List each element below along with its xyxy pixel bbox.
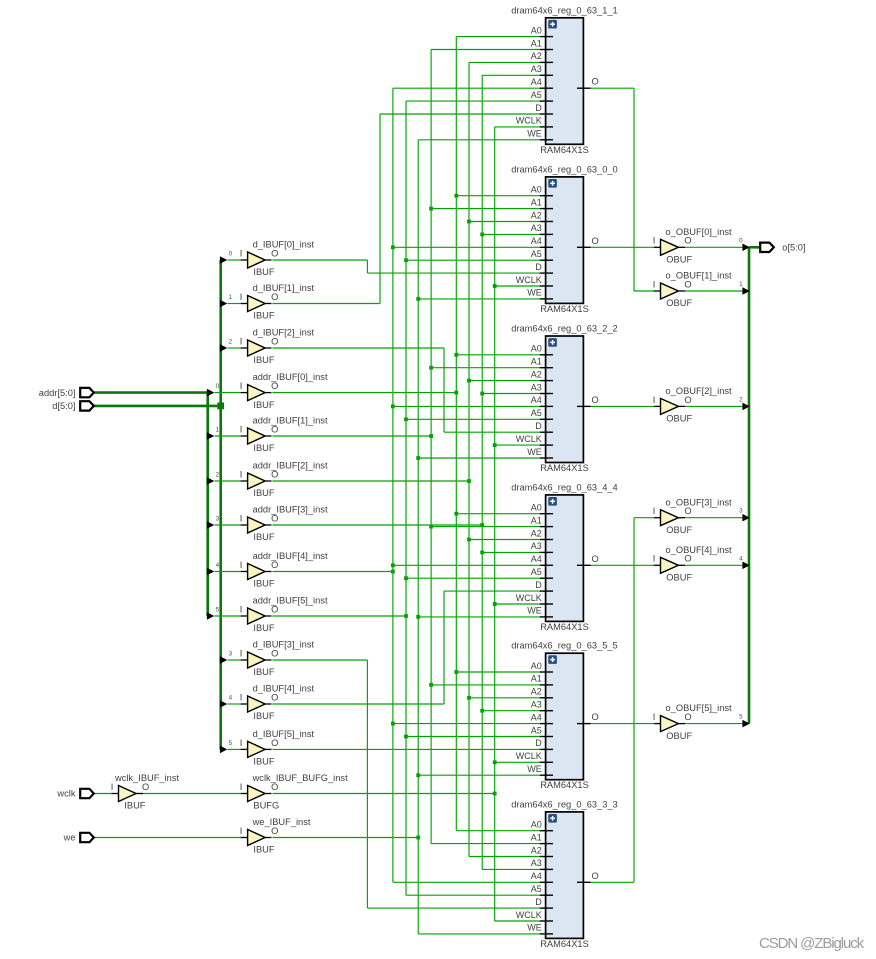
pin WCLK of dram64x6_reg_0_63_4_4: [540, 603, 553, 605]
svg-text:O: O: [271, 604, 278, 614]
pin WCLK of dram64x6_reg_0_63_1_1: [540, 126, 553, 128]
wire net d_IBUF[1] (jog to RAM D pin): [272, 114, 539, 304]
svg-text:RAM64X1S: RAM64X1S: [540, 622, 589, 632]
pin A4 of dram64x6_reg_0_63_4_4: [540, 564, 553, 566]
pin A5 of dram64x6_reg_0_63_3_3: [540, 894, 553, 896]
svg-text:o_OBUF[1]_inst: o_OBUF[1]_inst: [666, 271, 733, 281]
svg-text:O: O: [592, 77, 599, 87]
pin A0 of dram64x6_reg_0_63_4_4: [540, 513, 553, 515]
svg-text:A0: A0: [531, 25, 542, 35]
pin O of dram64x6_reg_0_63_0_0: [577, 246, 591, 248]
svg-text:A3: A3: [531, 541, 542, 551]
svg-text:we_IBUF_inst: we_IBUF_inst: [252, 817, 311, 827]
svg-text:O: O: [684, 236, 691, 246]
svg-text:addr_IBUF[5]_inst: addr_IBUF[5]_inst: [253, 596, 328, 606]
input port we: [63, 833, 94, 843]
svg-text:o_OBUF[3]_inst: o_OBUF[3]_inst: [666, 497, 733, 507]
svg-text:o[5:0]: o[5:0]: [782, 243, 805, 253]
svg-text:A4: A4: [531, 236, 542, 246]
svg-text:WE: WE: [527, 447, 542, 457]
buffer addr_IBUF[2]_inst (IBUF): [240, 461, 328, 499]
svg-text:A4: A4: [531, 712, 542, 722]
pin A4 of dram64x6_reg_0_63_0_0: [540, 246, 553, 248]
svg-text:O: O: [684, 712, 691, 722]
pin A1 of dram64x6_reg_0_63_2_2: [540, 367, 553, 369]
svg-text:d_IBUF[0]_inst: d_IBUF[0]_inst: [253, 240, 315, 250]
svg-text:IBUF: IBUF: [253, 845, 274, 855]
svg-text:I: I: [240, 738, 243, 748]
bus tap arrow addr[3]: [207, 515, 248, 528]
svg-text:5: 5: [739, 714, 743, 721]
svg-text:3: 3: [739, 508, 743, 515]
pin A4 of dram64x6_reg_0_63_2_2: [540, 405, 553, 407]
wire o_OBUF[5] output to o bus, tap arrow and bit index 5: [685, 714, 750, 728]
svg-text:RAM64X1S: RAM64X1S: [540, 463, 589, 473]
svg-text:IBUF: IBUF: [124, 801, 145, 811]
svg-text:A3: A3: [531, 64, 542, 74]
svg-text:5: 5: [229, 740, 233, 747]
bus tap arrow d[4]: [220, 694, 248, 707]
pin A5 of dram64x6_reg_0_63_5_5: [540, 736, 553, 738]
svg-text:O: O: [592, 871, 599, 881]
svg-text:we: we: [63, 833, 76, 843]
svg-text:OBUF: OBUF: [666, 414, 692, 424]
bus tap arrow addr[4]: [207, 562, 248, 575]
buffer wclk_IBUF_inst (IBUF): [111, 773, 180, 811]
svg-text:1: 1: [216, 426, 220, 433]
svg-text:I: I: [240, 469, 243, 479]
pin D of dram64x6_reg_0_63_0_0: [540, 272, 553, 274]
svg-text:d_IBUF[4]_inst: d_IBUF[4]_inst: [253, 684, 315, 694]
svg-text:A4: A4: [531, 395, 542, 405]
svg-text:o_OBUF[0]_inst: o_OBUF[0]_inst: [666, 227, 733, 237]
RAM block dram64x6_reg_0_63_2_2 (RAM64X1S): [511, 324, 617, 474]
svg-text:A0: A0: [531, 820, 542, 830]
junction d bus at port row: [217, 403, 224, 410]
wire net dram O(4_4) to o_OBUF[4] input: [591, 564, 654, 566]
svg-text:OBUF: OBUF: [666, 298, 692, 308]
wire o[5:0] output bus: [749, 247, 761, 723]
svg-text:IBUF: IBUF: [253, 355, 274, 365]
junctions net addr_IBUF[1]: [429, 207, 433, 687]
svg-text:I: I: [240, 826, 243, 836]
svg-text:A3: A3: [531, 223, 542, 233]
svg-text:1: 1: [739, 281, 743, 288]
pin WCLK of dram64x6_reg_0_63_5_5: [540, 761, 553, 763]
svg-text:1: 1: [229, 294, 233, 301]
input port addr[5:0]: [39, 388, 94, 398]
svg-text:4: 4: [739, 555, 743, 562]
buffer addr_IBUF[0]_inst (IBUF): [240, 372, 328, 410]
pin A1 of dram64x6_reg_0_63_4_4: [540, 526, 553, 528]
svg-text:A0: A0: [531, 344, 542, 354]
pin A5 of dram64x6_reg_0_63_4_4: [540, 577, 553, 579]
pin A5 of dram64x6_reg_0_63_2_2: [540, 418, 553, 420]
pin A1 of dram64x6_reg_0_63_5_5: [540, 684, 553, 686]
pin WE of dram64x6_reg_0_63_4_4: [540, 616, 553, 618]
svg-text:d_IBUF[1]_inst: d_IBUF[1]_inst: [253, 283, 315, 293]
pin O of dram64x6_reg_0_63_4_4: [577, 564, 591, 566]
junctions net wclk_IBUF_BUFG: [493, 284, 497, 795]
svg-text:A1: A1: [531, 197, 542, 207]
buffer addr_IBUF[1]_inst (IBUF): [240, 416, 328, 454]
svg-text:D: D: [535, 738, 542, 748]
svg-text:I: I: [653, 506, 656, 516]
RAM block dram64x6_reg_0_63_4_4 (RAM64X1S): [511, 482, 617, 632]
svg-text:O: O: [271, 424, 278, 434]
pin WE of dram64x6_reg_0_63_0_0: [540, 298, 553, 300]
svg-text:IBUF: IBUF: [253, 488, 274, 498]
svg-text:I: I: [240, 604, 243, 614]
svg-text:RAM64X1S: RAM64X1S: [540, 145, 589, 155]
svg-text:O: O: [271, 782, 278, 792]
pin A4 of dram64x6_reg_0_63_5_5: [540, 723, 553, 725]
svg-text:A2: A2: [531, 210, 542, 220]
buffer o_OBUF[1]_inst (OBUF): [653, 271, 732, 309]
svg-text:0: 0: [216, 383, 220, 390]
svg-text:A4: A4: [531, 77, 542, 87]
svg-text:2: 2: [739, 396, 743, 403]
wire addr[5:0] input bus (port to addr trunk, with per-bit taps): [93, 391, 207, 616]
svg-text:IBUF: IBUF: [253, 711, 274, 721]
svg-text:O: O: [684, 554, 691, 564]
svg-text:dram64x6_reg_0_63_2_2: dram64x6_reg_0_63_2_2: [511, 324, 617, 334]
svg-text:d_IBUF[3]_inst: d_IBUF[3]_inst: [253, 640, 315, 650]
pin A3 of dram64x6_reg_0_63_3_3: [540, 868, 553, 870]
svg-text:BUFG: BUFG: [253, 801, 279, 811]
pin D of dram64x6_reg_0_63_3_3: [540, 907, 553, 909]
svg-text:I: I: [653, 712, 656, 722]
wire wclk port to wclk_IBUF input: [93, 793, 118, 795]
wire net d_IBUF[4] (jog to RAM D pin): [272, 591, 539, 704]
buffer addr_IBUF[5]_inst (IBUF): [240, 596, 328, 634]
svg-text:I: I: [111, 782, 114, 792]
svg-text:I: I: [240, 513, 243, 523]
svg-text:A1: A1: [531, 515, 542, 525]
svg-text:RAM64X1S: RAM64X1S: [540, 939, 589, 949]
svg-text:A0: A0: [531, 185, 542, 195]
svg-text:IBUF: IBUF: [253, 532, 274, 542]
wire d[5:0] input bus (port to d trunk, with per-bit taps): [93, 260, 220, 749]
svg-text:2: 2: [229, 338, 233, 345]
pin A1 of dram64x6_reg_0_63_1_1: [540, 49, 553, 51]
svg-text:OBUF: OBUF: [666, 731, 692, 741]
wire net d_IBUF[0] (jog to RAM D pin): [272, 260, 539, 273]
svg-text:O: O: [271, 469, 278, 479]
wire net dram O(5_5) to o_OBUF[5] input: [591, 723, 654, 725]
buffer d_IBUF[1]_inst (IBUF): [240, 283, 315, 321]
svg-text:d_IBUF[2]_inst: d_IBUF[2]_inst: [253, 328, 315, 338]
svg-text:IBUF: IBUF: [253, 267, 274, 277]
svg-text:addr_IBUF[4]_inst: addr_IBUF[4]_inst: [253, 551, 328, 561]
junctions net addr_IBUF[0]: [454, 194, 458, 674]
svg-text:wclk_IBUF_BUFG_inst: wclk_IBUF_BUFG_inst: [252, 773, 348, 783]
svg-text:A4: A4: [531, 554, 542, 564]
svg-text:O: O: [271, 381, 278, 391]
svg-text:I: I: [240, 782, 243, 792]
svg-text:WCLK: WCLK: [516, 751, 542, 761]
svg-text:4: 4: [216, 562, 220, 569]
svg-text:RAM64X1S: RAM64X1S: [540, 780, 589, 790]
wire net addr_IBUF[1] (IBUF output row, vertical trunk, branches to block pins): [272, 50, 539, 844]
pin A3 of dram64x6_reg_0_63_5_5: [540, 710, 553, 712]
pin A0 of dram64x6_reg_0_63_0_0: [540, 195, 553, 197]
svg-text:O: O: [592, 395, 599, 405]
pin A4 of dram64x6_reg_0_63_1_1: [540, 87, 553, 89]
pin D of dram64x6_reg_0_63_1_1: [540, 113, 553, 115]
svg-text:A1: A1: [531, 674, 542, 684]
svg-text:D: D: [535, 103, 542, 113]
pin A2 of dram64x6_reg_0_63_1_1: [540, 61, 553, 63]
svg-text:4: 4: [229, 694, 233, 701]
bus tap arrow addr[2]: [207, 471, 248, 484]
svg-text:A0: A0: [531, 661, 542, 671]
pin O of dram64x6_reg_0_63_1_1: [577, 87, 591, 89]
svg-text:I: I: [240, 692, 243, 702]
svg-text:A5: A5: [531, 567, 542, 577]
svg-text:o_OBUF[5]_inst: o_OBUF[5]_inst: [666, 703, 733, 713]
svg-text:O: O: [271, 826, 278, 836]
buffer addr_IBUF[4]_inst (IBUF): [240, 551, 328, 589]
svg-text:WE: WE: [527, 764, 542, 774]
svg-text:A1: A1: [531, 357, 542, 367]
svg-text:dram64x6_reg_0_63_0_0: dram64x6_reg_0_63_0_0: [511, 164, 617, 174]
wire net d_IBUF[3] (jog to RAM D pin): [272, 660, 539, 908]
svg-text:I: I: [240, 336, 243, 346]
svg-text:o_OBUF[2]_inst: o_OBUF[2]_inst: [666, 386, 733, 396]
pin A2 of dram64x6_reg_0_63_2_2: [540, 380, 553, 382]
RAM block dram64x6_reg_0_63_3_3 (RAM64X1S): [511, 799, 617, 949]
svg-text:WCLK: WCLK: [516, 116, 542, 126]
svg-text:O: O: [271, 292, 278, 302]
svg-text:addr_IBUF[2]_inst: addr_IBUF[2]_inst: [253, 461, 328, 471]
svg-text:OBUF: OBUF: [666, 525, 692, 535]
svg-text:D: D: [535, 580, 542, 590]
bus tap arrow addr[5]: [207, 606, 248, 619]
svg-text:D: D: [535, 897, 542, 907]
pin D of dram64x6_reg_0_63_5_5: [540, 748, 553, 750]
pin WE of dram64x6_reg_0_63_3_3: [540, 933, 553, 935]
wire net d_IBUF[5] (straight to RAM D pin): [272, 748, 539, 750]
svg-text:3: 3: [216, 515, 220, 522]
pin O of dram64x6_reg_0_63_2_2: [577, 405, 591, 407]
svg-text:I: I: [240, 292, 243, 302]
buffer o_OBUF[2]_inst (OBUF): [653, 386, 732, 424]
pin D of dram64x6_reg_0_63_2_2: [540, 431, 553, 433]
svg-text:O: O: [271, 648, 278, 658]
bus tap arrow d[2]: [220, 338, 248, 351]
buffer o_OBUF[3]_inst (OBUF): [653, 497, 732, 535]
svg-text:A5: A5: [531, 884, 542, 894]
svg-text:2: 2: [216, 471, 220, 478]
junctions net we_IBUF: [416, 297, 420, 839]
wire o_OBUF[2] output to o bus, tap arrow and bit index 2: [685, 396, 750, 410]
svg-text:dram64x6_reg_0_63_3_3: dram64x6_reg_0_63_3_3: [511, 799, 617, 809]
svg-text:WCLK: WCLK: [516, 593, 542, 603]
svg-text:O: O: [684, 279, 691, 289]
wire we port to we_IBUF input: [93, 837, 247, 839]
svg-text:5: 5: [216, 606, 220, 613]
svg-text:addr_IBUF[3]_inst: addr_IBUF[3]_inst: [253, 505, 328, 515]
svg-text:addr[5:0]: addr[5:0]: [39, 388, 76, 398]
svg-text:A2: A2: [531, 369, 542, 379]
buffer o_OBUF[5]_inst (OBUF): [653, 703, 732, 741]
pin A3 of dram64x6_reg_0_63_4_4: [540, 551, 553, 553]
svg-text:0: 0: [229, 250, 233, 257]
pin A2 of dram64x6_reg_0_63_5_5: [540, 697, 553, 699]
buffer d_IBUF[5]_inst (IBUF): [240, 729, 315, 767]
svg-text:I: I: [240, 248, 243, 258]
junctions net addr_IBUF[4]: [391, 245, 395, 725]
svg-text:A5: A5: [531, 90, 542, 100]
pin A5 of dram64x6_reg_0_63_1_1: [540, 100, 553, 102]
svg-text:O: O: [271, 513, 278, 523]
svg-text:A2: A2: [531, 845, 542, 855]
svg-text:A5: A5: [531, 408, 542, 418]
svg-text:IBUF: IBUF: [253, 623, 274, 633]
pin O of dram64x6_reg_0_63_5_5: [577, 723, 591, 725]
svg-text:WCLK: WCLK: [516, 434, 542, 444]
svg-text:I: I: [653, 554, 656, 564]
svg-text:O: O: [271, 336, 278, 346]
svg-text:O: O: [271, 692, 278, 702]
wire net dram O(2_2) to o_OBUF[2] input: [591, 405, 654, 407]
svg-text:O: O: [592, 236, 599, 246]
RAM block dram64x6_reg_0_63_5_5 (RAM64X1S): [511, 641, 617, 791]
pin WE of dram64x6_reg_0_63_5_5: [540, 774, 553, 776]
pin A2 of dram64x6_reg_0_63_3_3: [540, 856, 553, 858]
wire net addr_IBUF[0] (IBUF output row, vertical trunk, branches to block pins): [272, 37, 539, 831]
bus tap arrow d[5]: [220, 740, 248, 753]
svg-text:dram64x6_reg_0_63_1_1: dram64x6_reg_0_63_1_1: [511, 5, 617, 15]
pin A0 of dram64x6_reg_0_63_2_2: [540, 354, 553, 356]
svg-text:O: O: [271, 560, 278, 570]
svg-text:3: 3: [229, 650, 233, 657]
svg-text:WCLK: WCLK: [516, 275, 542, 285]
svg-text:wclk: wclk: [56, 789, 75, 799]
svg-text:I: I: [240, 381, 243, 391]
buffer d_IBUF[2]_inst (IBUF): [240, 328, 315, 366]
svg-text:IBUF: IBUF: [253, 400, 274, 410]
buffer o_OBUF[4]_inst (OBUF): [653, 545, 732, 583]
svg-text:addr_IBUF[0]_inst: addr_IBUF[0]_inst: [253, 372, 328, 382]
pin A2 of dram64x6_reg_0_63_4_4: [540, 539, 553, 541]
bus tap arrow d[3]: [220, 650, 248, 663]
wire net dram O(0_0) to o_OBUF[0] input: [591, 246, 654, 248]
svg-text:A3: A3: [531, 700, 542, 710]
pin A1 of dram64x6_reg_0_63_3_3: [540, 843, 553, 845]
input port wclk: [56, 789, 93, 799]
pin WE of dram64x6_reg_0_63_1_1: [540, 139, 553, 141]
svg-text:A1: A1: [531, 38, 542, 48]
pin WCLK of dram64x6_reg_0_63_0_0: [540, 285, 553, 287]
wire net dram O(1_1) to o_OBUF[1] input: [591, 88, 654, 291]
pin WCLK of dram64x6_reg_0_63_3_3: [540, 920, 553, 922]
pin A2 of dram64x6_reg_0_63_0_0: [540, 221, 553, 223]
svg-text:O: O: [592, 554, 599, 564]
bus tap arrow d[1]: [220, 294, 248, 307]
buffer d_IBUF[4]_inst (IBUF): [240, 684, 315, 722]
wire wclk_IBUF output to BUFG input: [136, 793, 248, 795]
bus tap arrow addr[0]: [207, 383, 248, 396]
svg-text:dram64x6_reg_0_63_5_5: dram64x6_reg_0_63_5_5: [511, 641, 617, 651]
wire net addr_IBUF[2] (IBUF output row, vertical trunk, branches to block pins): [272, 62, 539, 856]
svg-text:A3: A3: [531, 382, 542, 392]
pin O of dram64x6_reg_0_63_3_3: [577, 881, 591, 883]
wire o_OBUF[3] output to o bus, tap arrow and bit index 3: [685, 508, 750, 522]
svg-text:A3: A3: [531, 858, 542, 868]
svg-text:IBUF: IBUF: [253, 757, 274, 767]
pin A3 of dram64x6_reg_0_63_2_2: [540, 393, 553, 395]
svg-text:WE: WE: [527, 923, 542, 933]
bus tap arrow addr[1]: [207, 426, 248, 439]
svg-text:D: D: [535, 262, 542, 272]
input port d[5:0]: [52, 401, 94, 411]
svg-text:A5: A5: [531, 725, 542, 735]
pin D of dram64x6_reg_0_63_4_4: [540, 590, 553, 592]
wire net we_IBUF (IBUF output row, vertical trunk, branches to block pins): [272, 140, 539, 934]
svg-text:CSDN @ZBigluck: CSDN @ZBigluck: [759, 935, 865, 952]
svg-text:OBUF: OBUF: [666, 573, 692, 583]
wire net addr_IBUF[4] (IBUF output row, vertical trunk, branches to block pins): [272, 88, 539, 882]
pin A3 of dram64x6_reg_0_63_1_1: [540, 74, 553, 76]
pin A4 of dram64x6_reg_0_63_3_3: [540, 881, 553, 883]
RAM block dram64x6_reg_0_63_1_1 (RAM64X1S): [511, 5, 617, 155]
svg-text:WCLK: WCLK: [516, 910, 542, 920]
svg-text:A2: A2: [531, 687, 542, 697]
svg-text:dram64x6_reg_0_63_4_4: dram64x6_reg_0_63_4_4: [511, 482, 617, 492]
wire net addr_IBUF[5] (IBUF output row, vertical trunk, branches to block pins): [272, 101, 539, 895]
svg-text:0: 0: [739, 237, 743, 244]
svg-text:IBUF: IBUF: [253, 667, 274, 677]
junctions net addr_IBUF[2]: [467, 220, 471, 700]
svg-text:WE: WE: [527, 288, 542, 298]
pin A0 of dram64x6_reg_0_63_3_3: [540, 830, 553, 832]
svg-text:o_OBUF[4]_inst: o_OBUF[4]_inst: [666, 545, 733, 555]
buffer wclk_IBUF_BUFG_inst (BUFG): [240, 773, 348, 811]
junctions net addr_IBUF[3]: [480, 233, 484, 713]
buffer we_IBUF_inst (IBUF): [240, 817, 311, 855]
svg-text:I: I: [653, 236, 656, 246]
wire net d_IBUF[2] (jog to RAM D pin): [272, 348, 539, 432]
svg-text:O: O: [684, 395, 691, 405]
svg-text:IBUF: IBUF: [253, 443, 274, 453]
bus tap arrow d[0]: [220, 250, 248, 263]
svg-text:OBUF: OBUF: [666, 255, 692, 265]
pin A5 of dram64x6_reg_0_63_0_0: [540, 259, 553, 261]
pin A1 of dram64x6_reg_0_63_0_0: [540, 208, 553, 210]
pin A0 of dram64x6_reg_0_63_1_1: [540, 36, 553, 38]
pin WCLK of dram64x6_reg_0_63_2_2: [540, 444, 553, 446]
svg-text:O: O: [684, 506, 691, 516]
buffer d_IBUF[3]_inst (IBUF): [240, 640, 315, 678]
svg-text:d_IBUF[5]_inst: d_IBUF[5]_inst: [253, 729, 315, 739]
svg-text:D: D: [535, 421, 542, 431]
svg-text:A2: A2: [531, 51, 542, 61]
svg-text:O: O: [592, 712, 599, 722]
svg-text:O: O: [142, 782, 149, 792]
buffer addr_IBUF[3]_inst (IBUF): [240, 505, 328, 543]
svg-text:I: I: [240, 560, 243, 570]
wire net addr_IBUF[3] (IBUF output row, vertical trunk, branches to block pins): [272, 75, 539, 869]
svg-text:A2: A2: [531, 528, 542, 538]
watermark CSDN @ZBigluck: [759, 935, 865, 952]
svg-text:A4: A4: [531, 871, 542, 881]
svg-text:I: I: [653, 279, 656, 289]
svg-text:RAM64X1S: RAM64X1S: [540, 304, 589, 314]
buffer o_OBUF[0]_inst (OBUF): [653, 227, 732, 265]
pin A0 of dram64x6_reg_0_63_5_5: [540, 671, 553, 673]
